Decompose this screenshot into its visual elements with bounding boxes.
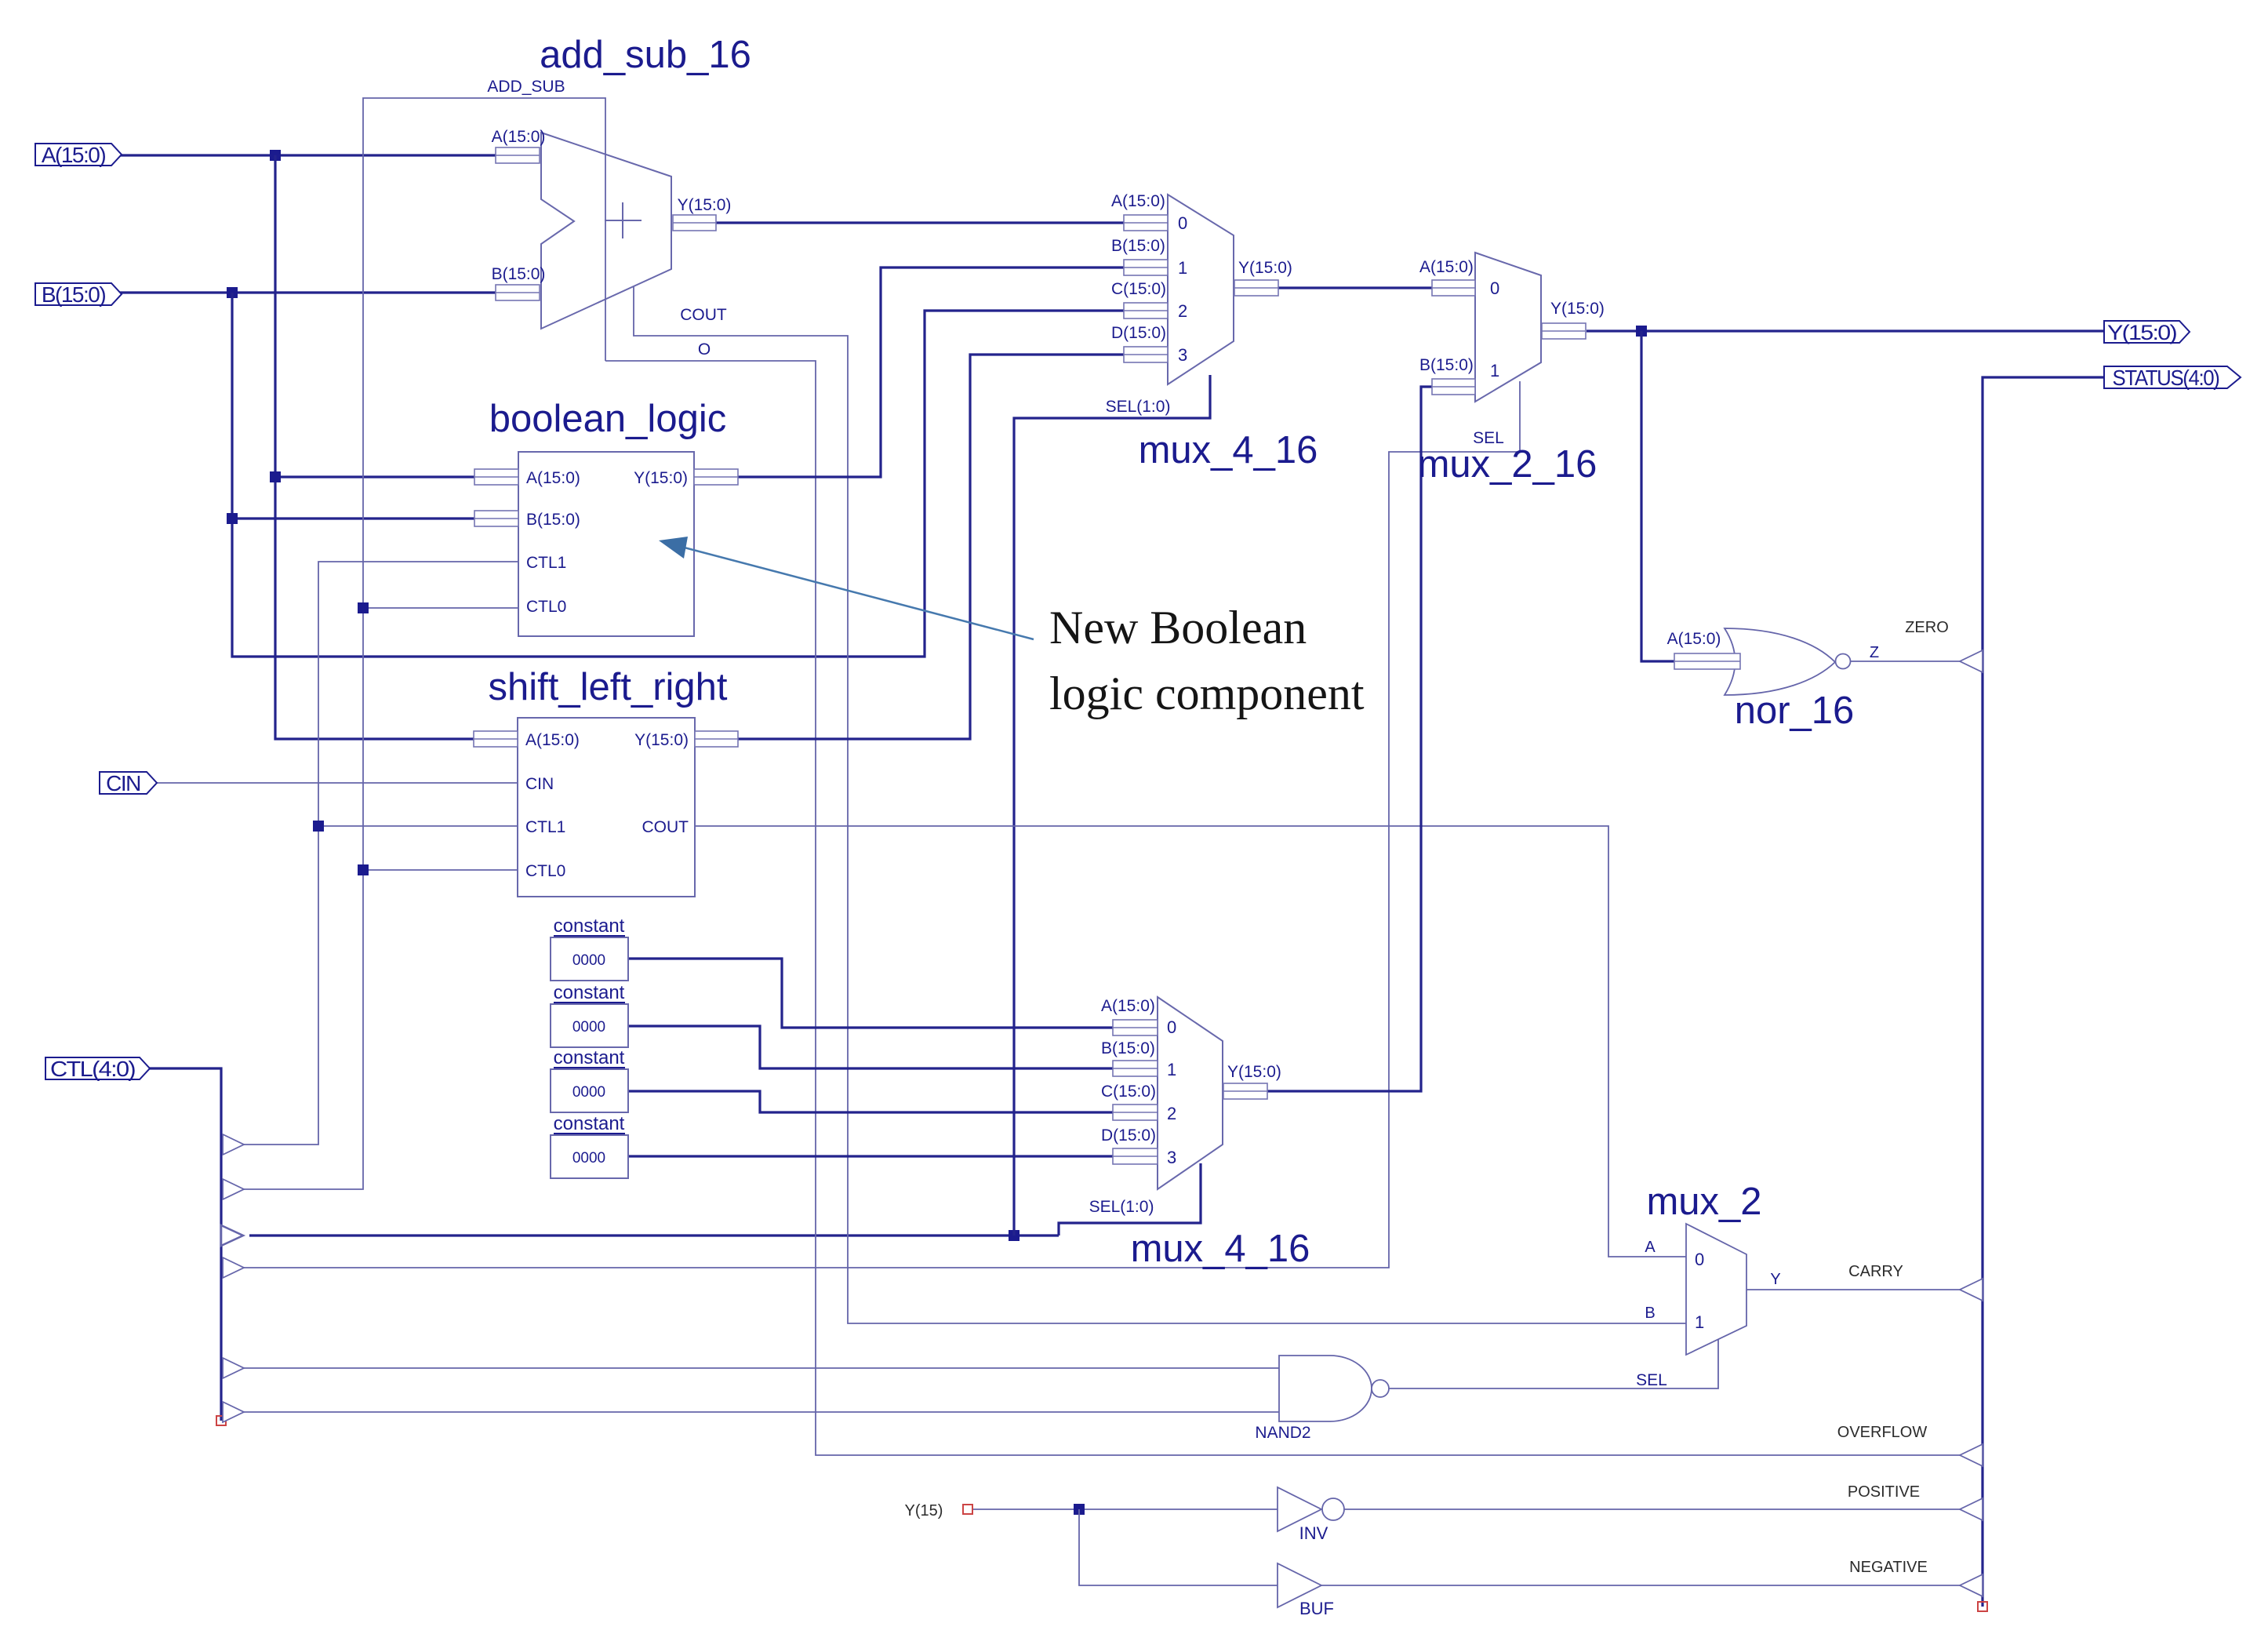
wire Y(15) node to INV input bbox=[972, 1509, 1278, 1510]
wire constant4 to mux_4_16#2 D bbox=[628, 1155, 1113, 1157]
wire STATUS bus bbox=[1983, 377, 2104, 1607]
mux_4_16 #1 pin C bbox=[1124, 303, 1168, 318]
svg-text:Z: Z bbox=[1870, 644, 1879, 661]
svg-text:C(15:0): C(15:0) bbox=[1101, 1083, 1156, 1101]
svg-text:0000: 0000 bbox=[572, 952, 605, 969]
wire ADD_SUB through adder bbox=[605, 154, 606, 300]
wire CTL0 stub to boolean_logic bbox=[363, 607, 518, 609]
wire INV output to POSITIVE tap bbox=[1344, 1509, 1961, 1510]
wire CTL net to NAND2 input 2 bbox=[243, 1411, 1279, 1413]
wire SEL(1:0) bus from tap3 bbox=[249, 1234, 1059, 1236]
constant block 3 bbox=[551, 1069, 628, 1112]
svg-text:boolean_logic: boolean_logic bbox=[489, 398, 726, 440]
shift_left_right pin A(15:0) bbox=[474, 731, 518, 747]
svg-text:0000: 0000 bbox=[572, 1019, 605, 1035]
annotation arrow line bbox=[663, 542, 1034, 639]
wire CTL bus vertical bbox=[148, 1068, 221, 1421]
svg-text:Y(15:0): Y(15:0) bbox=[678, 196, 732, 214]
svg-text:Y(15:0): Y(15:0) bbox=[2107, 321, 2177, 344]
svg-text:Y: Y bbox=[1770, 1271, 1780, 1288]
svg-text:A(15:0): A(15:0) bbox=[492, 128, 546, 146]
svg-text:2: 2 bbox=[1178, 301, 1187, 321]
mux_4_16 #2 pin A bbox=[1113, 1020, 1158, 1035]
nor_16 bubble bbox=[1836, 654, 1851, 669]
bus tap CTL3 (tap4) bbox=[223, 1257, 244, 1278]
svg-text:A(15:0): A(15:0) bbox=[526, 469, 580, 487]
wire CTL3 net from tap4 to mux_2_16 SEL bbox=[243, 381, 1520, 1268]
adder add_sub_16 body bbox=[541, 133, 671, 329]
bus tap CARRY on STATUS bbox=[1960, 1279, 1983, 1301]
NAND2 gate body bbox=[1279, 1356, 1372, 1421]
wire adder Y to mux_4_16 A bbox=[716, 221, 1124, 224]
svg-text:ADD_SUB: ADD_SUB bbox=[487, 78, 565, 96]
wire ADD_SUB net (CTL0) from tap2 up to adder bbox=[243, 98, 605, 1189]
constant block 4 bbox=[551, 1135, 628, 1178]
wire NAND2 output to mux_2 SEL bbox=[1384, 1339, 1718, 1388]
svg-text:A(15:0): A(15:0) bbox=[1111, 192, 1165, 210]
svg-text:nor_16: nor_16 bbox=[1735, 690, 1855, 732]
svg-text:Y(15:0): Y(15:0) bbox=[1227, 1063, 1281, 1081]
wire CTL1 stub to shift_left_right bbox=[318, 825, 518, 827]
svg-text:0: 0 bbox=[1178, 213, 1187, 233]
mux_4_16 #2 pin C bbox=[1113, 1105, 1158, 1120]
wire shift_left_right Y to mux_4_16 D bbox=[738, 355, 1124, 739]
mux_2_16 pin Y bbox=[1542, 323, 1586, 339]
svg-text:add_sub_16: add_sub_16 bbox=[540, 34, 751, 76]
mux_4_16 #1 pin Y bbox=[1234, 280, 1278, 296]
bus tap OVERFLOW on STATUS bbox=[1960, 1444, 1983, 1466]
wire nor_16 Z to ZERO tap bbox=[1848, 661, 1961, 662]
wire constant1 to mux_4_16#2 A bbox=[628, 959, 1113, 1028]
wire shift_left_right COUT to mux_2 A bbox=[695, 826, 1686, 1257]
mux_2_16 body bbox=[1475, 253, 1541, 402]
svg-text:mux_2_16: mux_2_16 bbox=[1418, 443, 1597, 486]
svg-text:3: 3 bbox=[1178, 345, 1187, 365]
junction B at boolean_logic bbox=[227, 513, 238, 524]
svg-text:B(15:0): B(15:0) bbox=[526, 511, 580, 529]
wire SEL(1:0) to mux_4_16 #2 bbox=[1059, 1163, 1201, 1236]
svg-text:OVERFLOW: OVERFLOW bbox=[1837, 1424, 1928, 1441]
svg-text:Y(15): Y(15) bbox=[905, 1502, 943, 1519]
junction on B bus bbox=[227, 287, 238, 298]
bus tap to NAND2 in1 (tap5) bbox=[223, 1358, 244, 1378]
junction on A bus bbox=[270, 150, 281, 161]
svg-text:CTL(4:0): CTL(4:0) bbox=[50, 1057, 135, 1081]
wire B vertical feed bbox=[232, 293, 1124, 657]
svg-text:constant: constant bbox=[554, 982, 625, 1003]
adder pin Y(15:0) bbox=[673, 215, 716, 231]
open end marker Y(15) bbox=[963, 1505, 972, 1514]
svg-text:B(15:0): B(15:0) bbox=[1111, 237, 1165, 255]
svg-text:CTL1: CTL1 bbox=[526, 554, 566, 572]
svg-text:shift_left_right: shift_left_right bbox=[488, 666, 727, 708]
junction on Y net bbox=[1636, 326, 1647, 337]
wire A stub to boolean_logic A pin bbox=[275, 475, 474, 478]
input port CTL(4:0) bbox=[45, 1057, 150, 1079]
adder pin B(15:0) bbox=[496, 285, 540, 300]
wire adder O to OVERFLOW bbox=[605, 361, 1961, 1455]
adder plus sign bbox=[605, 220, 642, 221]
svg-text:CIN: CIN bbox=[525, 775, 554, 793]
svg-text:CTL0: CTL0 bbox=[526, 598, 566, 616]
svg-text:0000: 0000 bbox=[572, 1084, 605, 1101]
wire mux_4_16 #2 Y to mux_2_16 B bbox=[1267, 387, 1432, 1091]
wire mux_2 Y to CARRY tap bbox=[1746, 1289, 1961, 1290]
constant block 1 bbox=[551, 937, 628, 981]
shift_left_right body bbox=[518, 718, 695, 897]
wire A input bus bbox=[120, 154, 496, 156]
bus tap SEL(1:0) (tap3) bbox=[221, 1225, 243, 1246]
wire mux_4_16 #1 Y to mux_2_16 A bbox=[1278, 286, 1432, 289]
svg-text:0: 0 bbox=[1695, 1250, 1704, 1269]
wire A vertical feed to boolean_logic and shift_left_right bbox=[275, 155, 474, 739]
wire boolean_logic Y to mux_4_16 B bbox=[738, 267, 1124, 477]
wire CTL0 stub to shift_left_right bbox=[363, 869, 518, 871]
svg-text:3: 3 bbox=[1167, 1148, 1176, 1167]
svg-text:B(15:0): B(15:0) bbox=[42, 282, 105, 307]
svg-text:constant: constant bbox=[554, 1047, 625, 1068]
mux_2 body bbox=[1686, 1224, 1746, 1355]
boolean_logic pin B(15:0) bbox=[474, 511, 518, 526]
wire adder COUT to mux_2 B bbox=[634, 279, 1686, 1323]
bus tap CTL0 (tap1) bbox=[223, 1134, 244, 1155]
mux_4_16 #2 pin Y bbox=[1223, 1083, 1267, 1099]
svg-text:New Boolean: New Boolean bbox=[1049, 602, 1307, 653]
mux_4_16 #2 body bbox=[1158, 997, 1223, 1189]
open end marker STATUS bus bbox=[1978, 1602, 1987, 1611]
svg-text:O: O bbox=[698, 340, 711, 358]
svg-text:BUF: BUF bbox=[1299, 1599, 1334, 1618]
mux_2_16 pin B bbox=[1432, 379, 1475, 395]
junction CTL1 at shift_left_right bbox=[313, 821, 324, 832]
svg-text:2: 2 bbox=[1167, 1104, 1176, 1123]
svg-text:SEL(1:0): SEL(1:0) bbox=[1089, 1198, 1154, 1216]
svg-text:POSITIVE: POSITIVE bbox=[1848, 1483, 1920, 1501]
svg-text:constant: constant bbox=[554, 1113, 625, 1134]
wire CTL1 net from tap1 up bbox=[243, 562, 518, 1145]
adder pin A(15:0) bbox=[496, 147, 540, 163]
junction A at boolean_logic bbox=[270, 471, 281, 482]
bus tap to NAND2 in2 (tap6) bbox=[223, 1402, 244, 1422]
svg-text:COUT: COUT bbox=[642, 818, 689, 836]
wire SEL(1:0) vertical to mux_4_16 #1 bbox=[1014, 375, 1210, 1236]
svg-text:CIN: CIN bbox=[106, 771, 140, 795]
svg-text:Y(15:0): Y(15:0) bbox=[634, 469, 688, 487]
svg-text:C(15:0): C(15:0) bbox=[1111, 280, 1166, 298]
open end marker CTL bus bbox=[216, 1416, 226, 1425]
svg-text:COUT: COUT bbox=[680, 306, 727, 324]
svg-text:Y(15:0): Y(15:0) bbox=[1238, 259, 1292, 277]
nor_16 gate body bbox=[1725, 628, 1835, 695]
junction CTL0 at shift_left_right bbox=[358, 864, 369, 875]
svg-text:0: 0 bbox=[1490, 278, 1499, 298]
svg-text:STATUS(4:0): STATUS(4:0) bbox=[2113, 366, 2219, 390]
svg-text:CTL1: CTL1 bbox=[525, 818, 565, 836]
svg-text:NAND2: NAND2 bbox=[1255, 1424, 1310, 1442]
mux_4_16 #1 pin B bbox=[1124, 260, 1168, 275]
junction SEL bus bbox=[1009, 1230, 1020, 1241]
bus tap NEGATIVE on STATUS bbox=[1960, 1574, 1983, 1596]
svg-text:INV: INV bbox=[1299, 1523, 1328, 1543]
wire B stub to boolean_logic B pin bbox=[232, 517, 474, 519]
mux_4_16 #1 pin D bbox=[1124, 347, 1168, 362]
INV gate body bbox=[1278, 1487, 1321, 1531]
wire constant2 to mux_4_16#2 B bbox=[628, 1026, 1113, 1068]
wire Y net to nor_16 A bbox=[1641, 331, 1674, 661]
svg-text:Y(15:0): Y(15:0) bbox=[634, 731, 689, 749]
wire CIN to shift_left_right bbox=[156, 782, 518, 784]
svg-text:A(15:0): A(15:0) bbox=[42, 143, 105, 167]
bus tap POSITIVE on STATUS bbox=[1960, 1498, 1983, 1520]
mux_4_16 #1 body bbox=[1168, 195, 1234, 384]
svg-text:mux_4_16: mux_4_16 bbox=[1131, 1228, 1310, 1270]
wire B input bus bbox=[120, 291, 496, 293]
mux_4_16 #1 pin A bbox=[1124, 215, 1168, 231]
svg-text:SEL: SEL bbox=[1636, 1371, 1667, 1389]
svg-text:A(15:0): A(15:0) bbox=[1101, 997, 1155, 1015]
svg-text:SEL(1:0): SEL(1:0) bbox=[1106, 398, 1171, 416]
NAND2 bubble bbox=[1372, 1380, 1389, 1397]
svg-text:0000: 0000 bbox=[572, 1150, 605, 1166]
boolean_logic body bbox=[518, 452, 694, 636]
wire CTL net to NAND2 input 1 bbox=[243, 1367, 1279, 1369]
svg-text:CARRY: CARRY bbox=[1848, 1263, 1903, 1280]
output port Y(15:0) bbox=[2104, 321, 2190, 343]
wire constant3 to mux_4_16#2 C bbox=[628, 1091, 1113, 1112]
svg-text:0: 0 bbox=[1167, 1017, 1176, 1037]
svg-text:B(15:0): B(15:0) bbox=[492, 265, 546, 283]
svg-text:B(15:0): B(15:0) bbox=[1419, 356, 1474, 374]
wire Y(15) to BUF input bbox=[1079, 1509, 1278, 1585]
svg-text:ZERO: ZERO bbox=[1905, 619, 1949, 636]
svg-text:mux_2: mux_2 bbox=[1646, 1181, 1761, 1223]
svg-text:CTL0: CTL0 bbox=[525, 862, 565, 880]
svg-text:B: B bbox=[1645, 1305, 1655, 1322]
svg-text:A(15:0): A(15:0) bbox=[525, 731, 580, 749]
svg-text:1: 1 bbox=[1490, 361, 1499, 380]
BUF gate body bbox=[1278, 1563, 1321, 1607]
nor_16 pin A(15:0) bbox=[1674, 653, 1740, 669]
svg-text:1: 1 bbox=[1167, 1060, 1176, 1079]
wire mux_2_16 Y to Y output bbox=[1587, 329, 2104, 332]
svg-text:1: 1 bbox=[1178, 258, 1187, 278]
mux_2_16 pin A bbox=[1432, 280, 1475, 296]
boolean_logic pin A(15:0) bbox=[474, 469, 518, 485]
svg-text:NEGATIVE: NEGATIVE bbox=[1849, 1559, 1928, 1576]
svg-text:logic component: logic component bbox=[1049, 668, 1365, 719]
input port B(15:0) bbox=[35, 283, 122, 305]
output port STATUS(4:0) bbox=[2104, 366, 2241, 388]
svg-text:A(15:0): A(15:0) bbox=[1419, 258, 1474, 276]
svg-text:constant: constant bbox=[554, 915, 625, 937]
shift_left_right pin Y(15:0) bbox=[695, 731, 738, 747]
mux_4_16 #2 pin D bbox=[1113, 1148, 1158, 1164]
svg-text:mux_4_16: mux_4_16 bbox=[1139, 429, 1318, 471]
svg-text:A: A bbox=[1645, 1239, 1656, 1256]
junction CTL0 at boolean_logic bbox=[358, 602, 369, 613]
junction Y(15) node bbox=[1074, 1504, 1085, 1515]
input port CIN bbox=[100, 772, 157, 794]
svg-text:D(15:0): D(15:0) bbox=[1101, 1126, 1156, 1145]
input port A(15:0) bbox=[35, 144, 122, 166]
annotation arrowhead bbox=[659, 537, 688, 559]
svg-text:Y(15:0): Y(15:0) bbox=[1550, 300, 1605, 318]
svg-text:D(15:0): D(15:0) bbox=[1111, 324, 1166, 342]
bus tap CTL1 (tap2) bbox=[223, 1179, 244, 1199]
INV bubble bbox=[1322, 1498, 1344, 1520]
wire BUF output to NEGATIVE tap bbox=[1321, 1585, 1961, 1586]
svg-text:A(15:0): A(15:0) bbox=[1667, 630, 1721, 648]
mux_4_16 #2 pin B bbox=[1113, 1061, 1158, 1076]
svg-text:B(15:0): B(15:0) bbox=[1101, 1039, 1155, 1057]
bus tap ZERO on STATUS bbox=[1960, 650, 1983, 672]
svg-text:1: 1 bbox=[1695, 1312, 1704, 1332]
constant block 2 bbox=[551, 1004, 628, 1047]
boolean_logic pin Y(15:0) bbox=[694, 469, 738, 485]
